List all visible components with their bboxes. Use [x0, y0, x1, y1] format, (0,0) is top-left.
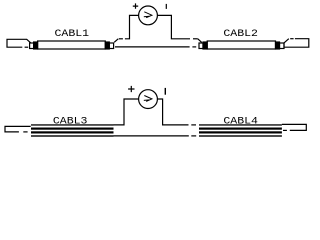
svg-text:CABL3: CABL3 — [53, 116, 88, 128]
wire: dash segment — [290, 38, 293, 40]
wire: dash segment — [191, 124, 196, 126]
ferrule F2 — [105, 42, 109, 49]
coax socket square S4 — [280, 43, 285, 49]
ammeter AMP1 circle — [139, 6, 158, 25]
cable CABL2 body — [207, 41, 275, 49]
svg-text:CABL2: CABL2 — [223, 28, 258, 40]
cable CABL1 body — [38, 41, 106, 49]
ammeter AMP1 arrow glyph — [144, 12, 152, 18]
coax socket square S1 — [30, 43, 34, 49]
wire: dash segment — [193, 38, 198, 40]
wire: bottom shield line CABL3 to CABL4 — [114, 135, 189, 137]
port stub rectangle PR2 (bottom-right) — [282, 124, 306, 130]
wire: ground/shield line between CABL1 and CABL2 — [115, 46, 190, 48]
cable CABL3 striped body — [31, 124, 114, 136]
ferrule F3 — [203, 42, 207, 49]
svg-text:CABL1: CABL1 — [55, 28, 90, 40]
coax socket square S3 — [199, 43, 203, 49]
current label I of AMP1 — [166, 4, 167, 9]
current label I of AMP2 — [165, 88, 166, 95]
wire: dash segment — [192, 46, 196, 48]
plus label of AMP1 — [133, 3, 138, 8]
wire: dash segment — [191, 135, 196, 137]
ammeter AMP2 arrow glyph — [144, 96, 152, 102]
connector plug P2 body — [284, 39, 309, 48]
wire: AMP1 output down to node — [157, 15, 190, 38]
coax socket square S2 — [109, 43, 113, 49]
wire: AMP2 output down to CABL4 — [157, 99, 188, 125]
ferrule F4 — [276, 42, 280, 49]
wire: CABL3 top lead to ammeter AMP2 — [114, 99, 139, 125]
wire: CABL1 pin2 stub diagonal — [114, 39, 118, 43]
connector plug P1 (top-left) — [7, 39, 31, 47]
wire: dash segment — [119, 38, 123, 40]
port stub rectangle PR1 (bottom-left) — [5, 126, 31, 131]
plus label of AMP2 — [128, 86, 134, 92]
ferrule F1 — [34, 42, 38, 49]
wire: up to ammeter AMP1 plus terminal — [125, 15, 139, 38]
connector plug P2 (top-right) chamfer — [284, 39, 289, 43]
ammeter AMP2 circle — [139, 90, 158, 109]
wire: diagonal stub to CABL2 pin1 — [198, 39, 202, 43]
svg-text:CABL4: CABL4 — [223, 116, 258, 128]
cable CABL4 striped body — [199, 124, 282, 136]
